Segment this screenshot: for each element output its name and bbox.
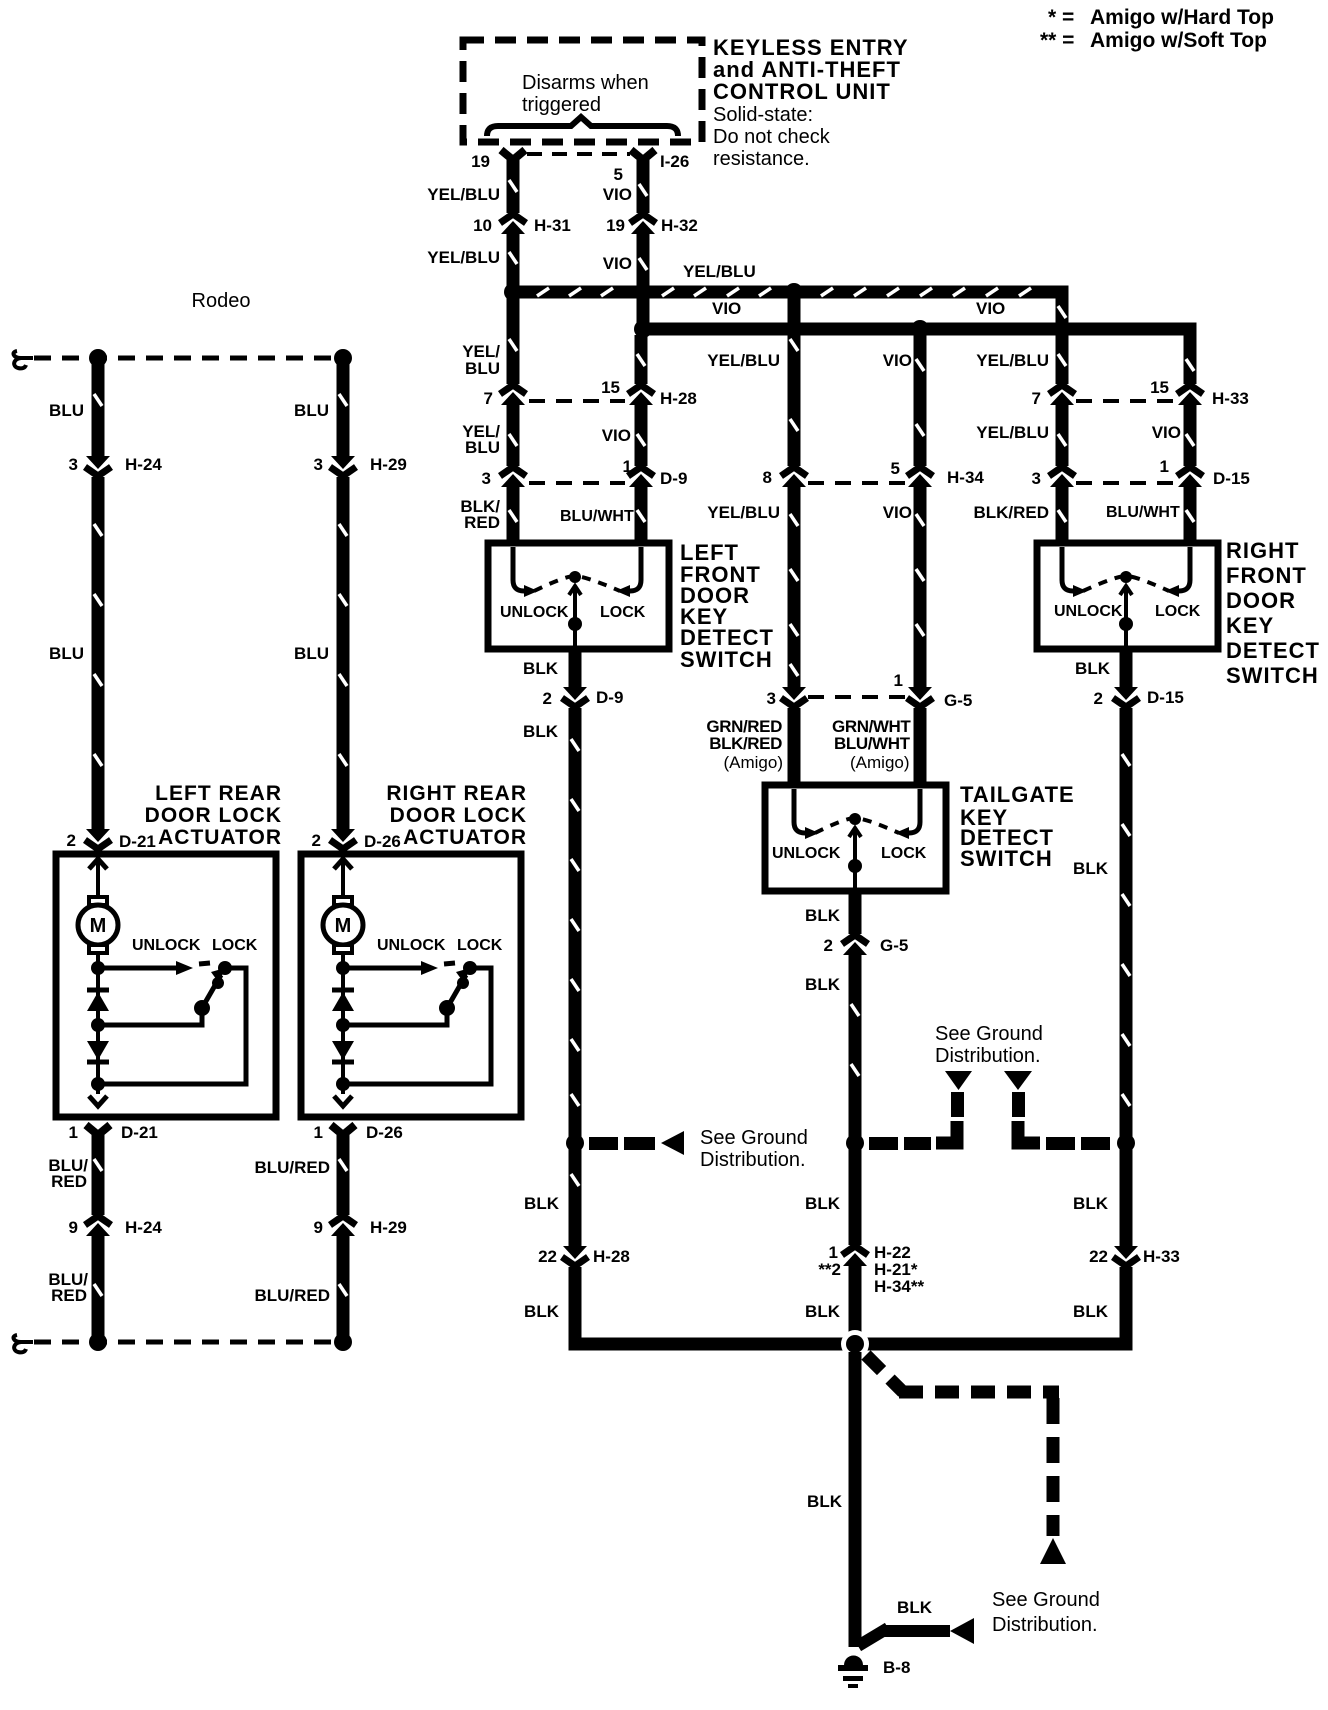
svg-text:H-29: H-29 [370, 1218, 407, 1237]
svg-text:H-32: H-32 [661, 216, 698, 235]
ticks right VIO wire [1186, 359, 1194, 522]
label: KEYLESS ENTRY and ANTI-THEFT CONTROL UNIT [713, 35, 909, 104]
dashed wire bottom (Rodeo) [34, 1340, 340, 1345]
dashed connector line H-34 [808, 481, 906, 485]
svg-text:BLU: BLU [49, 401, 84, 420]
wire VIO bus to tailgate switch [916, 335, 924, 785]
connector H-32 pin 19 [627, 213, 659, 234]
label BLK [1073, 859, 1109, 878]
svg-text:M: M [335, 915, 352, 937]
labels 2 D-15 [1094, 688, 1184, 708]
connector H-31 pin 10 [497, 213, 529, 234]
svg-text:D-15: D-15 [1147, 688, 1184, 707]
svg-text:KEY: KEY [1226, 613, 1274, 638]
junction BLK left wire at ground-distribution tap [566, 1134, 584, 1152]
label GRN/WHT BLU/WHT (Amigo) [832, 717, 911, 772]
svg-text:VIO: VIO [883, 503, 912, 522]
junction BLK right wire at ground-distribution tap [1117, 1134, 1135, 1152]
connector H-28 pin 22 [559, 1246, 591, 1267]
svg-text:ACTUATOR: ACTUATOR [158, 826, 282, 849]
label See Ground Distribution (bottom) [992, 1589, 1100, 1636]
svg-text:BLK: BLK [807, 1492, 843, 1511]
svg-text:19: 19 [471, 152, 490, 171]
svg-text:CONTROL UNIT: CONTROL UNIT [713, 79, 891, 104]
label BLU/RED [254, 1286, 330, 1305]
svg-text:YEL/BLU: YEL/BLU [683, 262, 756, 281]
svg-text:RIGHT REAR: RIGHT REAR [386, 782, 527, 805]
svg-text:3: 3 [69, 455, 78, 474]
svg-text:VIO: VIO [712, 299, 741, 318]
junction bus VIO at H-32 wire [634, 320, 652, 338]
svg-text:LOCK: LOCK [881, 845, 927, 862]
svg-text:* =: * = [1048, 6, 1074, 29]
svg-text:D-26: D-26 [366, 1123, 403, 1142]
labels 1 G-5 [894, 671, 973, 710]
connector I-26 pin 5 (female cup) [631, 150, 655, 160]
svg-text:7: 7 [1032, 389, 1041, 408]
labels 2 D-21 [67, 831, 156, 851]
svg-text:YEL/BLU: YEL/BLU [707, 503, 780, 522]
label YEL/BLU [707, 351, 780, 370]
label BLK [805, 1194, 841, 1213]
label VIO [603, 185, 632, 204]
svg-text:2: 2 [824, 936, 833, 955]
labels 22 H-28 [538, 1247, 630, 1266]
labels UNLOCK LOCK (tailgate) [772, 845, 927, 862]
svg-text:BLU/WHT: BLU/WHT [1106, 504, 1180, 521]
connector label I-26 [660, 152, 689, 171]
svg-text:1: 1 [894, 671, 903, 690]
hook at left of top dashed wire [14, 351, 33, 368]
connector D-26 pin 1 (female cup) [331, 1125, 355, 1135]
wire YEL/BLU pin19 to H-31 [509, 160, 517, 215]
labels 1 D-15 [1160, 457, 1250, 488]
svg-text:BLK: BLK [897, 1598, 933, 1617]
pin label 7 [484, 389, 493, 408]
svg-text:(Amigo): (Amigo) [723, 753, 783, 772]
dashed branch from junction to ground distribution arrow [866, 1355, 1066, 1564]
labels 1 D-26 [314, 1123, 403, 1142]
wire BLK junction to ground B-8 [849, 1352, 862, 1647]
label Rodeo [192, 290, 251, 312]
labels 1 D-21 [69, 1123, 158, 1142]
connector pin 8 [778, 466, 810, 487]
label BLU [49, 644, 84, 663]
label VIO [883, 351, 912, 370]
label BLK [807, 1492, 843, 1511]
svg-text:BLU: BLU [49, 644, 84, 663]
pin label 7 [1032, 389, 1041, 408]
connector H-24 pin 9 [82, 1215, 114, 1236]
dashed tap to ground distribution stub 2 and right wire [1004, 1071, 1110, 1150]
wire VIO bus to left front door switch [637, 335, 645, 543]
svg-text:D-21: D-21 [121, 1123, 158, 1142]
wire BLU to H-24 pin 3 [94, 358, 102, 456]
svg-text:RED: RED [51, 1286, 87, 1305]
svg-text:2: 2 [1094, 689, 1103, 708]
wire YEL/BLU H-31 to bus [509, 234, 517, 298]
label RIGHT REAR DOOR LOCK ACTUATOR [386, 782, 527, 849]
svg-text:BLU: BLU [294, 644, 329, 663]
svg-text:H-34**: H-34** [874, 1277, 924, 1296]
svg-text:2: 2 [312, 831, 321, 850]
wire BLU H-24 to D-21 [94, 477, 102, 830]
connector H-22/H-21/H-34 pins 1 **2 [839, 1245, 871, 1266]
connector H-28 pin 7 [497, 384, 529, 405]
connector I-26 pin 19 (female cup) [501, 150, 525, 160]
svg-text:VIO: VIO [603, 254, 632, 273]
labels 22 H-33 [1089, 1247, 1180, 1266]
svg-text:15: 15 [601, 378, 620, 397]
svg-text:VIO: VIO [976, 299, 1005, 318]
dashed connector line D-9 [529, 481, 625, 485]
hook at left of bottom dashed wire [14, 1335, 33, 1352]
label VIO on bus (left) [712, 299, 741, 318]
svg-text:TAILGATE: TAILGATE [960, 782, 1075, 807]
svg-text:H-24: H-24 [125, 1218, 162, 1237]
svg-text:15: 15 [1150, 378, 1169, 397]
labels 15 H-28 [601, 378, 697, 408]
tailgate key detect switch [765, 785, 946, 891]
svg-text:RED: RED [51, 1172, 87, 1191]
svg-text:1: 1 [314, 1123, 323, 1142]
label VIO [602, 426, 631, 445]
pin label 3 [1032, 469, 1041, 488]
svg-text:Rodeo: Rodeo [192, 290, 251, 312]
svg-text:B-8: B-8 [883, 1658, 910, 1677]
svg-text:RED: RED [464, 513, 500, 532]
connector D-21 pin 2 [82, 829, 114, 850]
labels H-22 H-21* H-34** [874, 1243, 924, 1296]
connector H-33 pin 22 [1110, 1246, 1142, 1267]
svg-text:3: 3 [482, 469, 491, 488]
svg-text:BLK: BLK [805, 1194, 841, 1213]
connector H-29 pin 3 [327, 456, 359, 477]
labels UNLOCK LOCK (left front) [500, 604, 646, 621]
pin label 19 [471, 152, 490, 171]
bus YEL/BLU (hatched) to right front door switch [513, 288, 1066, 543]
svg-text:BLU/RED: BLU/RED [254, 1158, 330, 1177]
label YEL/BLU [707, 503, 780, 522]
svg-text:VIO: VIO [603, 185, 632, 204]
label BLK/RED [973, 503, 1049, 522]
connector D-15 pin 3 [1046, 466, 1078, 487]
label BLU [294, 401, 329, 420]
svg-text:**2: **2 [818, 1260, 841, 1279]
label BLK [523, 659, 559, 678]
svg-text:8: 8 [763, 468, 772, 487]
junction right rear wire at bottom dashed wire [334, 1333, 352, 1351]
svg-text:BLK/RED: BLK/RED [709, 734, 782, 753]
junction left rear wire at top dashed wire [89, 349, 107, 367]
bottom BLK bus joining three wires [575, 1300, 1126, 1344]
dashed connector line D-15 [1076, 481, 1174, 485]
pin label 5 [614, 165, 623, 184]
junction BLK middle wire at ground-distribution tap [846, 1134, 864, 1152]
left front door key detect switch [488, 543, 669, 649]
svg-text:BLU/RED: BLU/RED [254, 1286, 330, 1305]
label LEFT FRONT DOOR KEY DETECT SWITCH [680, 540, 774, 672]
label BLK [805, 975, 841, 994]
label BLK [1075, 659, 1111, 678]
svg-text:H-34: H-34 [947, 468, 984, 487]
dashed wire top (Rodeo) [34, 356, 340, 361]
label TAILGATE KEY DETECT SWITCH [960, 782, 1075, 871]
svg-text:See Ground: See Ground [935, 1023, 1043, 1045]
svg-text:DOOR LOCK: DOOR LOCK [390, 804, 527, 827]
svg-text:See Ground: See Ground [700, 1127, 808, 1149]
label BLK [805, 1302, 841, 1321]
junction left rear wire at bottom dashed wire [89, 1333, 107, 1351]
label BLK [524, 1302, 560, 1321]
label BLK [897, 1598, 933, 1617]
label YEL/BLU [427, 185, 500, 204]
wire BLK right front switch to ground bus [1122, 649, 1130, 1338]
svg-text:1: 1 [623, 457, 632, 476]
svg-text:Amigo w/Hard Top: Amigo w/Hard Top [1090, 6, 1274, 29]
label: Disarms when triggered [522, 72, 649, 116]
junction bus YEL/BLU at tailgate branch [785, 283, 803, 301]
dashed tap to ground distribution stub 1 [869, 1071, 972, 1150]
label YEL/BLU [427, 248, 500, 267]
svg-text:G-5: G-5 [944, 691, 972, 710]
label YEL/BLU [462, 422, 500, 457]
labels 1 D-9 [623, 457, 688, 488]
connector D-9 pin 3 [497, 466, 529, 487]
brace under Disarms when triggered [487, 117, 678, 136]
svg-text:5: 5 [891, 459, 900, 478]
label BLU/WHT [560, 508, 634, 525]
svg-text:YEL/BLU: YEL/BLU [427, 185, 500, 204]
dashed connector line H-33 [1076, 399, 1174, 403]
dashed tap to See Ground Distribution (left) [589, 1131, 684, 1155]
label See Ground Distribution (left) [700, 1127, 808, 1171]
connector G-5 pin 2 [839, 934, 871, 955]
connector H-33 pin 7 [1046, 384, 1078, 405]
connector D-15 pin 2 [1110, 687, 1142, 708]
junction at ground bus (white ring) [841, 1330, 869, 1358]
label BLK [523, 722, 559, 741]
svg-text:LOCK: LOCK [212, 937, 258, 954]
connector H-28 pin 15 [625, 384, 657, 405]
junction right rear wire at top dashed wire [334, 349, 352, 367]
svg-text:7: 7 [484, 389, 493, 408]
svg-text:Do not check: Do not check [713, 126, 831, 148]
labels UNLOCK LOCK (right front) [1054, 603, 1201, 620]
branch to See Ground Distribution (bottom) [858, 1618, 974, 1646]
svg-text:(Amigo): (Amigo) [850, 753, 910, 772]
connector G-5 pin 3 [778, 687, 810, 708]
svg-text:ACTUATOR: ACTUATOR [403, 826, 527, 849]
svg-text:9: 9 [69, 1218, 78, 1237]
label YEL/BLU [976, 351, 1049, 370]
svg-text:2: 2 [67, 831, 76, 850]
svg-text:BLK: BLK [1073, 1302, 1109, 1321]
ground symbol B-8 [838, 1656, 868, 1689]
label B-8 [883, 1658, 910, 1677]
dashed connector line G-5 [808, 695, 906, 699]
svg-text:Distribution.: Distribution. [935, 1045, 1041, 1067]
svg-text:H-33: H-33 [1143, 1247, 1180, 1266]
svg-text:H-29: H-29 [370, 455, 407, 474]
svg-text:BLK: BLK [1073, 859, 1109, 878]
label BLU/RED [254, 1158, 330, 1177]
svg-text:3: 3 [314, 455, 323, 474]
svg-text:Distribution.: Distribution. [700, 1149, 806, 1171]
label BLK/RED [460, 497, 500, 532]
svg-text:D-26: D-26 [364, 832, 401, 851]
svg-text:19: 19 [606, 216, 625, 235]
junction bus YEL/BLU at H-31 wire [504, 283, 522, 301]
svg-text:D-15: D-15 [1213, 469, 1250, 488]
legend: * = Amigo w/Hard Top [1048, 6, 1274, 29]
svg-text:triggered: triggered [522, 94, 601, 116]
label BLU/RED [48, 1156, 88, 1191]
wire YEL/BLU bus to left front door switch [509, 298, 517, 543]
wire VIO pin5 to H-32 [639, 160, 647, 215]
svg-text:BLK: BLK [805, 1302, 841, 1321]
right rear door lock actuator (motor M, diodes, lock/unlock switch) [301, 854, 521, 1117]
pin label 3 [482, 469, 491, 488]
label BLK [805, 906, 841, 925]
label GRN/RED BLK/RED (Amigo) [706, 717, 783, 772]
wire BLU H-29 to D-26 [339, 477, 347, 830]
keyless entry and anti-theft control unit (dashed box) [463, 40, 702, 142]
svg-text:SWITCH: SWITCH [680, 647, 773, 672]
svg-text:BLU: BLU [465, 359, 500, 378]
svg-text:H-28: H-28 [593, 1247, 630, 1266]
labels 10 H-31 [473, 216, 571, 235]
svg-text:BLU: BLU [294, 401, 329, 420]
label BLU/WHT [1106, 504, 1180, 521]
svg-text:BLU/WHT: BLU/WHT [834, 734, 911, 753]
svg-text:Solid-state:: Solid-state: [713, 104, 813, 126]
connector D-21 pin 1 (female cup) [86, 1125, 110, 1135]
label VIO [1152, 423, 1181, 442]
label See Ground Distribution (middle) [935, 1023, 1043, 1067]
label RIGHT FRONT DOOR KEY DETECT SWITCH [1226, 538, 1320, 688]
svg-text:1: 1 [1160, 457, 1169, 476]
svg-text:3: 3 [1032, 469, 1041, 488]
connector D-9 pin 1 [625, 466, 657, 487]
pin label 3 [767, 689, 776, 708]
svg-text:LOCK: LOCK [1155, 603, 1201, 620]
labels 2 D-9 [543, 688, 624, 708]
label BLU [294, 644, 329, 663]
wire BLU to H-29 pin 3 [339, 358, 347, 456]
wire BLK left front switch to ground bus [571, 649, 579, 1338]
svg-text:Amigo w/Soft Top: Amigo w/Soft Top [1090, 29, 1267, 52]
pin label 8 [763, 468, 772, 487]
svg-text:22: 22 [1089, 1247, 1108, 1266]
label VIO [883, 503, 912, 522]
svg-text:G-5: G-5 [880, 936, 908, 955]
svg-text:YEL/BLU: YEL/BLU [976, 423, 1049, 442]
svg-text:H-28: H-28 [660, 389, 697, 408]
legend: ** = Amigo w/Soft Top [1040, 29, 1267, 52]
svg-text:VIO: VIO [602, 426, 631, 445]
svg-text:YEL/BLU: YEL/BLU [427, 248, 500, 267]
svg-text:UNLOCK: UNLOCK [1054, 603, 1123, 620]
svg-text:DETECT: DETECT [1226, 638, 1320, 663]
connector D-9 pin 2 [559, 687, 591, 708]
labels 19 H-32 [606, 216, 698, 235]
svg-text:BLK: BLK [1073, 1194, 1109, 1213]
svg-text:BLK: BLK [524, 1302, 560, 1321]
svg-text:LOCK: LOCK [457, 937, 503, 954]
svg-text:YEL/BLU: YEL/BLU [976, 351, 1049, 370]
svg-text:UNLOCK: UNLOCK [772, 845, 841, 862]
svg-text:UNLOCK: UNLOCK [132, 937, 201, 954]
label BLK [1073, 1194, 1109, 1213]
connector H-33 pin 15 [1174, 384, 1206, 405]
right front door key detect switch [1037, 543, 1218, 649]
labels 5 H-34 [891, 459, 985, 487]
labels 15 H-33 [1150, 378, 1249, 408]
wire VIO H-32 to bus [639, 234, 647, 329]
label VIO [603, 254, 632, 273]
svg-text:SWITCH: SWITCH [1226, 663, 1319, 688]
svg-text:LEFT REAR: LEFT REAR [155, 782, 282, 805]
connector G-5 pin 1 [904, 687, 936, 708]
svg-text:DOOR LOCK: DOOR LOCK [145, 804, 282, 827]
connector H-29 pin 9 [327, 1215, 359, 1236]
label: Solid-state: Do not check resistance. [713, 104, 831, 170]
label BLK [1073, 1302, 1109, 1321]
svg-text:5: 5 [614, 165, 623, 184]
svg-text:H-33: H-33 [1212, 389, 1249, 408]
svg-text:H-31: H-31 [534, 216, 571, 235]
svg-text:BLK: BLK [1075, 659, 1111, 678]
labels 2 D-26 [312, 831, 401, 851]
svg-text:Disarms when: Disarms when [522, 72, 649, 94]
connector D-26 pin 2 [327, 829, 359, 850]
svg-text:resistance.: resistance. [713, 148, 810, 170]
svg-text:I-26: I-26 [660, 152, 689, 171]
bus VIO to right front door switch [643, 329, 1190, 543]
svg-text:VIO: VIO [1152, 423, 1181, 442]
svg-text:UNLOCK: UNLOCK [377, 937, 446, 954]
labels 3 H-29 [314, 455, 407, 474]
svg-text:RIGHT: RIGHT [1226, 538, 1299, 563]
dashed connector line I-26 [527, 152, 630, 156]
svg-text:BLU/WHT: BLU/WHT [560, 508, 634, 525]
connector D-15 pin 1 [1174, 466, 1206, 487]
labels 9 H-29 [314, 1218, 407, 1237]
svg-text:H-24: H-24 [125, 455, 162, 474]
svg-text:10: 10 [473, 216, 492, 235]
label BLU [49, 401, 84, 420]
svg-text:LOCK: LOCK [600, 604, 646, 621]
svg-text:BLK: BLK [523, 659, 559, 678]
svg-text:BLK: BLK [524, 1194, 560, 1213]
svg-text:D-9: D-9 [660, 469, 687, 488]
wire BLU/RED D-21 to dashed wire [94, 1135, 102, 1338]
svg-text:2: 2 [543, 689, 552, 708]
label YEL/BLU [462, 342, 500, 378]
svg-text:BLK: BLK [805, 975, 841, 994]
labels 2 G-5 [824, 936, 909, 955]
left rear door lock actuator (motor M, diodes, lock/unlock switch) [56, 854, 276, 1117]
label LEFT REAR DOOR LOCK ACTUATOR [145, 782, 282, 849]
wire BLK tailgate switch to ground bus [851, 888, 859, 1338]
connector H-24 pin 3 [82, 456, 114, 477]
svg-text:VIO: VIO [883, 351, 912, 370]
svg-text:M: M [90, 915, 107, 937]
label BLU/RED [48, 1270, 88, 1305]
svg-text:BLK: BLK [805, 906, 841, 925]
svg-text:YEL/BLU: YEL/BLU [707, 351, 780, 370]
